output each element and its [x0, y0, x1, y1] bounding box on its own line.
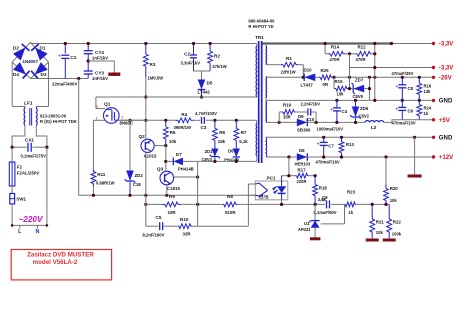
svg-text:L: L [18, 229, 22, 235]
svg-text:HER103: HER103 [295, 162, 311, 167]
svg-text:Q1: Q1 [104, 102, 111, 108]
svg-text:510R: 510R [225, 210, 236, 215]
svg-text:C6V2: C6V2 [359, 114, 370, 119]
svg-text:R15: R15 [335, 79, 344, 84]
svg-text:10R: 10R [168, 210, 177, 215]
svg-text:470R: 470R [356, 57, 366, 62]
svg-text:1000maF/10V: 1000maF/10V [317, 127, 344, 132]
svg-text:C5: C5 [156, 215, 162, 220]
svg-text:R10: R10 [180, 217, 189, 222]
svg-text:3,3nF/1kV: 3,3nF/1kV [181, 61, 201, 66]
svg-text:R11: R11 [97, 172, 106, 177]
svg-text:LT437: LT437 [301, 83, 314, 88]
svg-text:913-20031-00: 913-20031-00 [40, 114, 67, 119]
svg-text:470R: 470R [330, 57, 340, 62]
svg-text:3: 3 [96, 105, 98, 109]
svg-text:C8V9: C8V9 [353, 94, 364, 99]
svg-text:R19: R19 [283, 103, 292, 108]
svg-text:TR1: TR1 [255, 35, 264, 40]
svg-text:PH414B: PH414B [224, 157, 239, 162]
svg-text:D6: D6 [228, 149, 234, 154]
svg-text:R23: R23 [347, 190, 356, 195]
svg-text:22R/1W: 22R/1W [281, 70, 296, 75]
svg-text:SB360: SB360 [297, 128, 311, 133]
svg-text:10k: 10k [337, 92, 345, 97]
svg-text:390R/1W: 390R/1W [174, 125, 192, 130]
svg-text:D2: D2 [13, 46, 19, 51]
svg-text:10k: 10k [376, 230, 384, 235]
svg-text:817B: 817B [259, 195, 269, 200]
svg-text:C8V3: C8V3 [202, 157, 213, 162]
svg-text:990-00484-00: 990-00484-00 [248, 19, 275, 24]
svg-text:R13: R13 [346, 142, 355, 147]
svg-text:D9: D9 [298, 114, 304, 119]
svg-text:GND: GND [439, 98, 453, 105]
svg-text:CY4: CY4 [95, 50, 104, 55]
svg-text:R17: R17 [298, 168, 307, 173]
svg-text:R21: R21 [376, 220, 385, 225]
svg-text:D3: D3 [41, 72, 47, 77]
svg-text:C1: C1 [70, 55, 76, 61]
svg-text:LF1: LF1 [24, 101, 33, 107]
svg-text:1M0,5W: 1M0,5W [148, 76, 164, 81]
svg-text:C10: C10 [307, 117, 315, 122]
svg-text:Q3: Q3 [157, 167, 164, 172]
svg-text:+: + [317, 142, 320, 147]
svg-text:3,6k: 3,6k [318, 197, 327, 202]
svg-text:R16: R16 [424, 84, 432, 89]
svg-text:10k: 10k [390, 198, 398, 203]
svg-text:R7: R7 [241, 130, 247, 135]
svg-text:ZD7: ZD7 [355, 78, 364, 83]
svg-text:R5: R5 [170, 130, 176, 135]
svg-text:N: N [35, 229, 39, 235]
svg-text:A1015: A1015 [144, 153, 157, 158]
svg-text:4,7nF/100V: 4,7nF/100V [195, 111, 217, 116]
svg-text:Zasilacz DVD MUSTER: Zasilacz DVD MUSTER [27, 251, 94, 258]
svg-text:R4: R4 [181, 112, 187, 117]
svg-text:C3: C3 [201, 125, 207, 130]
svg-text:ZD2: ZD2 [135, 173, 144, 178]
svg-text:CX1: CX1 [25, 138, 34, 143]
svg-text:C4: C4 [342, 109, 348, 114]
svg-text:1nF/1kV: 1nF/1kV [92, 55, 108, 60]
svg-text:C1815: C1815 [167, 186, 180, 191]
svg-text:+12V: +12V [439, 154, 454, 161]
svg-text:PC1: PC1 [267, 176, 276, 181]
svg-text:+: + [330, 107, 333, 112]
svg-text:C7: C7 [328, 144, 334, 149]
svg-text:R24: R24 [424, 106, 432, 111]
svg-text:470maF/10V: 470maF/10V [392, 121, 416, 126]
svg-text:+: + [396, 84, 399, 89]
svg-text:R9: R9 [169, 194, 175, 199]
svg-text:D1: D1 [40, 46, 46, 51]
svg-text:F1: F1 [17, 165, 23, 170]
svg-text:33R: 33R [183, 232, 192, 237]
svg-text:1nF/1kV: 1nF/1kV [92, 76, 108, 81]
svg-text:R18: R18 [319, 186, 328, 191]
svg-text:+5V: +5V [439, 117, 451, 124]
svg-text:R6: R6 [219, 130, 225, 135]
svg-text:0,68R/1W: 0,68R/1W [96, 181, 115, 186]
svg-text:C6: C6 [408, 109, 414, 114]
svg-text:L2: L2 [371, 125, 377, 130]
svg-text:model V56LA-2: model V56LA-2 [33, 259, 78, 266]
svg-text:ZD6: ZD6 [360, 106, 369, 111]
svg-text:-26V: -26V [439, 75, 453, 82]
svg-text:1k: 1k [349, 210, 354, 215]
svg-text:F2AL/250V: F2AL/250V [17, 171, 41, 176]
svg-text:R2: R2 [214, 54, 220, 59]
svg-text:22maF/400V: 22maF/400V [52, 82, 77, 87]
svg-text:R25: R25 [321, 68, 330, 73]
svg-text:0,1maF/50V: 0,1maF/50V [314, 210, 337, 215]
svg-text:D10: D10 [304, 68, 313, 73]
svg-text:-3,3V: -3,3V [439, 41, 455, 48]
svg-text:R22: R22 [393, 220, 402, 225]
svg-text:CY3: CY3 [95, 71, 104, 76]
svg-text:D7: D7 [176, 152, 182, 157]
svg-text:10k: 10k [169, 139, 177, 144]
svg-text:+: + [396, 107, 399, 112]
svg-text:U1: U1 [304, 221, 310, 226]
svg-text:2,2nF/1kV: 2,2nF/1kV [301, 102, 321, 107]
svg-text:0,1maF/275V: 0,1maF/275V [21, 154, 47, 159]
svg-text:8,2nF/100V: 8,2nF/100V [143, 233, 165, 238]
svg-text:100k: 100k [392, 232, 402, 237]
svg-text:5,1k: 5,1k [239, 139, 248, 144]
svg-text:R12: R12 [358, 45, 367, 50]
svg-text:GND: GND [439, 135, 453, 142]
svg-text:D8: D8 [299, 148, 305, 153]
svg-text:1N4007: 1N4007 [23, 59, 39, 64]
svg-text:C8: C8 [408, 86, 414, 91]
svg-text:0R: 0R [323, 82, 329, 87]
svg-text:1k: 1k [424, 111, 429, 116]
svg-text:-3,3V: -3,3V [439, 65, 455, 72]
svg-text:SW1: SW1 [16, 197, 26, 202]
svg-text:D5: D5 [207, 81, 213, 86]
svg-text:D4: D4 [13, 72, 19, 77]
svg-text:220R: 220R [297, 179, 307, 184]
svg-text:R8: R8 [227, 194, 233, 199]
svg-text:AP431: AP431 [297, 227, 311, 232]
svg-text:R HI-POT YD: R HI-POT YD [248, 24, 273, 29]
svg-text:Q2: Q2 [139, 134, 146, 139]
svg-text:~220V: ~220V [19, 215, 44, 224]
svg-text:1: 1 [96, 117, 98, 121]
svg-text:15k: 15k [218, 139, 226, 144]
svg-text:R14: R14 [331, 45, 340, 50]
svg-text:PH414B: PH414B [178, 166, 194, 171]
svg-text:470maF/16V: 470maF/16V [316, 160, 340, 165]
svg-text:LT442: LT442 [198, 90, 211, 95]
svg-text:15R: 15R [283, 114, 291, 119]
svg-text:R1: R1 [286, 56, 292, 61]
svg-text:2: 2 [121, 116, 123, 120]
svg-text:+: + [58, 54, 61, 59]
svg-text:C18: C18 [133, 182, 142, 187]
svg-text:R20: R20 [390, 186, 399, 191]
svg-text:13k: 13k [424, 89, 432, 94]
svg-text:R (01) HI-POT TDK: R (01) HI-POT TDK [40, 119, 77, 124]
svg-text:8N60C: 8N60C [120, 121, 134, 126]
svg-text:47k/1W: 47k/1W [212, 64, 226, 69]
svg-text:ZD1: ZD1 [205, 149, 214, 154]
svg-text:C2: C2 [184, 52, 190, 57]
svg-text:R3: R3 [150, 62, 156, 67]
svg-text:47maF/35V: 47maF/35V [392, 71, 414, 76]
